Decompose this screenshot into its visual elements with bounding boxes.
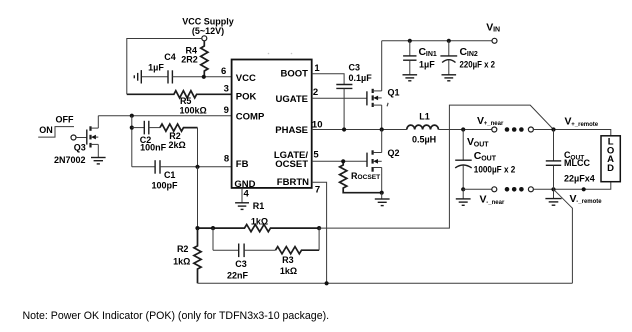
capacitor C3 0.1uF — [336, 63, 372, 130]
resistor R2 2k — [160, 124, 198, 150]
resistor R5 — [127, 91, 232, 116]
resistor R2 1k — [173, 228, 201, 283]
wire L1 to VOUT node — [438, 129, 492, 131]
ground (sideways, C4) — [134, 70, 141, 83]
node VIN terminal — [492, 38, 497, 43]
svg-text:2R2: 2R2 — [181, 55, 198, 65]
svg-text:4: 4 — [243, 189, 249, 200]
capacitor CIN2 — [440, 41, 495, 75]
svg-text:PHASE: PHASE — [275, 125, 308, 136]
wire V- row near — [463, 188, 492, 190]
svg-text:8: 8 — [224, 154, 229, 165]
node Q1/Q2 phase junction — [380, 127, 384, 131]
node continuation dots V+ — [505, 127, 524, 132]
svg-text:IN: IN — [493, 27, 500, 34]
svg-text:OCSET: OCSET — [275, 159, 308, 170]
capacitor CIN1 — [403, 41, 437, 75]
svg-text:9: 9 — [224, 105, 229, 116]
node VOUT label — [467, 136, 489, 148]
node load return junction — [582, 187, 586, 191]
svg-text:OCSET: OCSET — [358, 174, 381, 181]
wire VCC pin 6 — [204, 76, 232, 78]
svg-text:POK: POK — [236, 91, 257, 102]
svg-text:C1: C1 — [164, 170, 176, 180]
node V+_near terminal right — [528, 127, 533, 132]
node C3/PHASE junction — [342, 127, 346, 131]
node Q2 source/ROCSET junction — [380, 191, 384, 195]
svg-text:1µF: 1µF — [419, 60, 435, 70]
load box — [601, 136, 620, 182]
svg-text:100pF: 100pF — [151, 180, 178, 190]
svg-text:+_remote: +_remote — [571, 122, 599, 128]
svg-text:C3: C3 — [349, 63, 361, 73]
svg-text:IN2: IN2 — [467, 51, 478, 58]
svg-text:+_near: +_near — [484, 121, 504, 127]
svg-text:1µF: 1µF — [148, 63, 164, 73]
ground (IC GND) — [235, 203, 249, 210]
node V+_near label — [477, 115, 504, 127]
svg-text:Q3: Q3 — [74, 143, 86, 153]
ground (Q3 source) — [91, 158, 106, 164]
node VCC Supply label — [182, 17, 234, 36]
capacitor C4 — [142, 52, 204, 84]
node R1 left junction — [195, 226, 199, 230]
resistor R4 — [181, 41, 208, 77]
wire LGATE/OCSET pin 5 — [312, 160, 367, 162]
svg-text:22µFx4: 22µFx4 — [564, 173, 595, 183]
wire VIN rail — [382, 40, 492, 42]
resistor R3 — [276, 228, 320, 276]
transistor Q1 — [367, 41, 400, 130]
node VIN label — [486, 21, 500, 33]
node V+ remote junction — [551, 127, 555, 131]
node V+_near terminal left — [492, 127, 497, 132]
capacitor COUT MLCC — [546, 130, 595, 190]
node V+_remote label — [565, 115, 599, 127]
ground (CIN1) — [403, 75, 418, 81]
node COUT bottom junction — [461, 187, 465, 191]
svg-text:(5~12V): (5~12V) — [192, 26, 224, 36]
inductor L1 — [407, 111, 439, 144]
wire C2R2 to FB vertical — [197, 128, 199, 167]
wire BOOT pin 1 — [312, 74, 344, 85]
node VOUT junction — [461, 127, 465, 131]
node COMP junction — [130, 114, 134, 118]
wire V+ remote sense loop — [319, 105, 553, 228]
node FB junction — [195, 165, 199, 169]
svg-text:2N7002: 2N7002 — [54, 155, 86, 165]
wire FBRTN pin 7 — [312, 182, 327, 283]
svg-text:1kΩ: 1kΩ — [280, 266, 297, 276]
wire COMP — [98, 115, 231, 117]
svg-text:R2: R2 — [177, 244, 189, 254]
wire V- row to load — [533, 182, 611, 190]
svg-text:OUT: OUT — [474, 141, 490, 148]
svg-text:OFF: OFF — [56, 114, 74, 124]
node ON/OFF signal step — [38, 114, 74, 137]
wire FB down to R1 — [197, 167, 199, 228]
svg-text:C4: C4 — [164, 52, 176, 62]
svg-text:FB: FB — [236, 159, 249, 170]
node C2 branch junction — [130, 126, 134, 130]
wire V- remote sense diagonal — [554, 189, 573, 283]
svg-text:100nF: 100nF — [140, 143, 167, 153]
capacitor C2 — [132, 121, 167, 153]
svg-text:BOOT: BOOT — [281, 69, 309, 80]
svg-text:COMP: COMP — [236, 112, 265, 123]
node V-_remote label — [570, 193, 603, 205]
svg-text:D: D — [607, 163, 614, 174]
resistor ROCSET — [340, 161, 382, 192]
svg-text:1: 1 — [314, 63, 320, 74]
svg-text:220µF x 2: 220µF x 2 — [460, 60, 496, 70]
svg-text:FBRTN: FBRTN — [277, 177, 309, 188]
svg-text:L1: L1 — [419, 111, 430, 121]
node Q3 gate input terminal — [71, 135, 76, 140]
svg-text:1000µF x 2: 1000µF x 2 — [474, 165, 516, 175]
resistor R1 — [198, 201, 320, 232]
node CIN1 junction — [408, 39, 412, 43]
svg-text:Q1: Q1 — [387, 87, 399, 97]
svg-text:VCC: VCC — [236, 73, 256, 84]
svg-text:2kΩ: 2kΩ — [168, 140, 185, 150]
transistor Q2 — [367, 130, 400, 193]
svg-text:2: 2 — [313, 87, 318, 98]
node C3R3 branch junction — [211, 226, 215, 230]
svg-text:0.1µF: 0.1µF — [349, 73, 373, 83]
svg-text:5: 5 — [313, 149, 319, 160]
node R1 right junction — [317, 226, 321, 230]
node VCC supply terminal — [202, 36, 207, 41]
ground (V- remote) — [545, 189, 561, 205]
svg-text:R5: R5 — [180, 96, 192, 106]
transistor Q3 — [54, 116, 98, 166]
node junction R4/C4/VCC — [202, 75, 206, 79]
svg-text:22nF: 22nF — [227, 271, 249, 281]
wire top-left rail — [127, 39, 202, 95]
svg-text:1kΩ: 1kΩ — [251, 217, 268, 227]
svg-text:Note: Power OK Indicator (POK): Note: Power OK Indicator (POK) (only for… — [23, 310, 330, 322]
capacitor C1 — [132, 160, 198, 190]
node V- remote junction — [551, 187, 555, 191]
node CIN2 junction — [447, 39, 451, 43]
svg-text:C3: C3 — [235, 259, 247, 269]
wire GND pin 4 — [241, 188, 243, 203]
wire bottom feedback return — [198, 282, 573, 284]
svg-text:Q2: Q2 — [387, 148, 399, 158]
node FBRTN bottom junction — [325, 281, 329, 285]
node faint specks above IC — [268, 53, 270, 55]
wire PHASE pin 10 — [312, 129, 407, 131]
svg-text:-_near: -_near — [486, 200, 505, 206]
wire UGATE pin 2 — [312, 97, 367, 99]
svg-text:R1: R1 — [253, 201, 265, 211]
ground (COUT) — [456, 189, 471, 205]
svg-text:1kΩ: 1kΩ — [173, 257, 190, 267]
svg-text:3: 3 — [224, 83, 229, 94]
capacitor C3 22nF — [213, 244, 276, 281]
svg-text:100kΩ: 100kΩ — [179, 106, 206, 116]
wire artifact tick near Q1 — [387, 103, 388, 107]
svg-text:ON: ON — [39, 125, 53, 135]
node V-_near terminal right — [528, 187, 533, 192]
wire comp branch vertical — [131, 116, 133, 167]
node continuation dots V- — [505, 187, 524, 192]
svg-text:IN1: IN1 — [426, 51, 437, 58]
capacitor COUT bulk — [455, 130, 515, 190]
svg-text:6: 6 — [221, 66, 226, 77]
node V-_near label — [480, 194, 505, 206]
svg-text:R3: R3 — [282, 255, 294, 265]
svg-text:OUT: OUT — [481, 155, 497, 162]
ground (Q2 source) — [375, 193, 390, 206]
node V-_near terminal left — [492, 187, 497, 192]
node LGATE/ROCSET junction — [341, 159, 345, 163]
svg-text:UGATE: UGATE — [275, 94, 308, 105]
op-amp U1 controller IC box — [232, 60, 312, 188]
svg-text:MLCC: MLCC — [564, 158, 590, 168]
wire FB pin 8 — [198, 166, 232, 168]
svg-text:-_remote: -_remote — [576, 199, 602, 205]
wire Q3 gate — [76, 137, 87, 139]
svg-text:0.5µH: 0.5µH — [412, 135, 436, 145]
ground (CIN2) — [442, 75, 457, 81]
wire C3R3 branch left — [212, 228, 214, 250]
svg-text:7: 7 — [315, 184, 320, 195]
wire V+ row to load — [533, 130, 611, 136]
